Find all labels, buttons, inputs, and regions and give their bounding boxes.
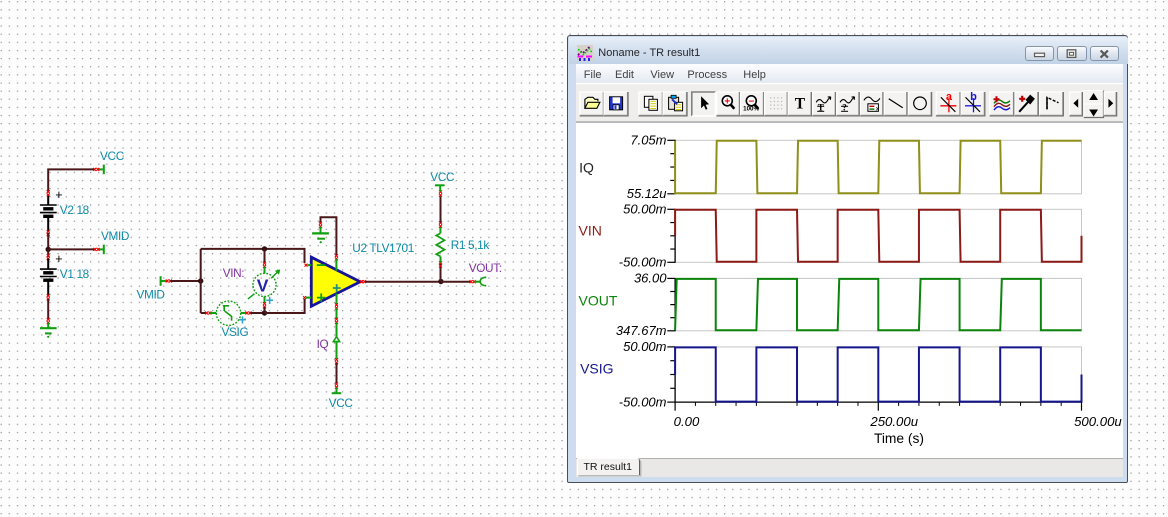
VSIG plot panel — [675, 346, 1081, 401]
toolbar — [576, 83, 1123, 123]
svg-text:U2 TLV1701: U2 TLV1701 — [352, 241, 414, 255]
VSIG trace — [675, 347, 1081, 401]
terminal VOUT — [470, 280, 473, 283]
toolbar button query-curve — [836, 92, 859, 116]
terminal VMID (batteries) — [98, 248, 104, 250]
VIN plot panel — [675, 209, 1081, 262]
toolbar button open — [579, 92, 603, 116]
svg-text:+: + — [55, 252, 62, 266]
wire vplus-down — [336, 308, 338, 319]
svg-text:VOUT: VOUT — [578, 292, 617, 308]
wire loop-bottom-left — [201, 312, 207, 314]
svg-text:100%: 100% — [743, 106, 759, 113]
wire IQ-to-VCC — [335, 358, 338, 361]
svg-text:-50.00m: -50.00m — [618, 254, 666, 269]
terminal VMID (input) — [160, 276, 162, 286]
ground (battery) — [47, 318, 50, 321]
window icon — [577, 45, 593, 61]
svg-text:VSIG: VSIG — [222, 325, 249, 339]
svg-text:500.00u: 500.00u — [1074, 414, 1122, 429]
pin vplus — [336, 294, 338, 306]
svg-text:IQ: IQ — [317, 337, 329, 351]
terminal VCC (R1) — [439, 186, 441, 192]
terminal VCC (batteries) — [97, 168, 103, 170]
toolbar button page-right — [1104, 92, 1117, 116]
node voltmeter-top junction — [262, 246, 267, 251]
menu bar — [576, 64, 1123, 83]
svg-text:+: + — [55, 188, 62, 202]
svg-text:VMID: VMID — [137, 288, 165, 302]
svg-text:+: + — [724, 97, 730, 108]
svg-text:VCC: VCC — [430, 170, 455, 184]
toolbar button grid (disabled) — [764, 92, 787, 116]
svg-text:V1 18: V1 18 — [60, 267, 90, 281]
toolbar button polyline — [1039, 92, 1063, 116]
titlebar button close — [1090, 46, 1119, 61]
wire VMID-to-loop — [171, 280, 201, 282]
toolbar button paste — [663, 92, 687, 116]
toolbar button text — [788, 92, 811, 116]
window Noname - TR result1 — [567, 35, 1128, 483]
wire junction-to-opamp-plus — [265, 299, 305, 313]
svg-text:50.00m: 50.00m — [623, 339, 667, 354]
tab TR result1 — [577, 458, 640, 475]
resistor R1 — [440, 263, 442, 281]
svg-text:a: a — [945, 91, 952, 103]
op-amp U2 — [311, 257, 360, 306]
svg-text:250.00u: 250.00u — [869, 414, 918, 429]
tab bar — [576, 458, 1123, 477]
wire out-to-term — [441, 281, 471, 283]
toolbar spinner — [1083, 91, 1103, 105]
svg-text:50.00m: 50.00m — [623, 201, 667, 216]
window title text — [598, 47, 700, 59]
pin opamp-plus — [303, 296, 306, 299]
svg-text:VSIG: VSIG — [580, 360, 613, 376]
svg-text:V2 18: V2 18 — [60, 203, 90, 217]
toolbar button zoom-in — [716, 92, 739, 116]
toolbar button annotate-curve — [812, 92, 835, 116]
resize grip dot — [1119, 459, 1121, 461]
svg-text:VIN: VIN — [578, 222, 601, 238]
toolbar button cursor (pressed) — [691, 92, 715, 116]
voltmeter VIN — [264, 249, 266, 263]
node VMID junction — [46, 247, 51, 252]
svg-text:VMID: VMID — [101, 229, 129, 243]
svg-text:Time (s): Time (s) — [873, 431, 923, 446]
svg-text:347.67m: 347.67m — [615, 323, 666, 338]
node input-loop junction — [198, 278, 203, 283]
svg-text:0.00: 0.00 — [673, 414, 699, 429]
wire R1-to-VCC — [440, 196, 442, 222]
wire V2-to-junction — [47, 233, 49, 249]
svg-text:7.05m: 7.05m — [630, 132, 666, 147]
wire loop-left — [200, 249, 202, 313]
wire V1-to-ground — [47, 299, 49, 320]
node VOUT junction — [438, 279, 443, 284]
toolbar button cursor-a — [936, 92, 960, 116]
svg-text:VCC: VCC — [329, 396, 354, 410]
toolbar button pick — [1015, 92, 1038, 116]
svg-text:+: + — [266, 293, 274, 308]
toolbar button cursor-b — [961, 92, 985, 116]
wire VMID stub — [48, 248, 96, 250]
current arrow IQ — [336, 323, 338, 338]
toolbar button zoom-out — [740, 92, 763, 116]
toolbar button ellipse — [908, 92, 931, 116]
ground (op-amp) — [319, 222, 322, 225]
toolbar button line — [884, 92, 907, 116]
pin vminus — [335, 254, 338, 257]
svg-text:55.12u: 55.12u — [626, 186, 666, 201]
VOUT trace — [675, 278, 1081, 329]
svg-text:VCC: VCC — [100, 149, 125, 163]
toolbar button add-curves — [989, 92, 1013, 116]
battery V1 — [47, 249, 49, 257]
wire out-to-R1 — [365, 281, 441, 283]
svg-text:-50.00m: -50.00m — [618, 394, 666, 409]
titlebar button maximize — [1057, 46, 1086, 61]
wire VCC-to-V2 — [48, 169, 95, 192]
wire loop-top — [201, 249, 305, 263]
window title bar — [569, 37, 1128, 65]
svg-text:R1 5,1k: R1 5,1k — [451, 238, 490, 252]
wire VSIG-to-junction — [250, 312, 264, 314]
svg-text:IQ: IQ — [579, 159, 594, 175]
svg-text:b: b — [970, 91, 977, 103]
plot client area — [576, 123, 1123, 459]
VOUT plot panel — [675, 278, 1081, 330]
VIN trace — [675, 209, 1081, 261]
IQ trace — [675, 140, 1081, 193]
pin opamp-out — [360, 280, 363, 283]
terminal VCC (bottom) — [336, 388, 338, 393]
toolbar button copy — [638, 92, 662, 116]
toolbar button legend — [860, 92, 883, 116]
battery V2 — [47, 195, 49, 206]
svg-text:T: T — [794, 95, 805, 112]
node VSIG junction — [262, 310, 267, 315]
pin opamp-minus — [305, 264, 308, 267]
svg-text:VOUT:: VOUT: — [469, 261, 502, 275]
toolbar button page-left — [1069, 92, 1082, 116]
source VSIG — [205, 312, 208, 315]
toolbar button save — [604, 92, 628, 116]
svg-text:36.00: 36.00 — [633, 270, 666, 285]
wire gnd-to-vminus — [321, 217, 337, 255]
IQ plot panel — [675, 140, 1081, 194]
titlebar button minimize — [1025, 46, 1054, 61]
svg-text:VIN:: VIN: — [223, 266, 245, 280]
